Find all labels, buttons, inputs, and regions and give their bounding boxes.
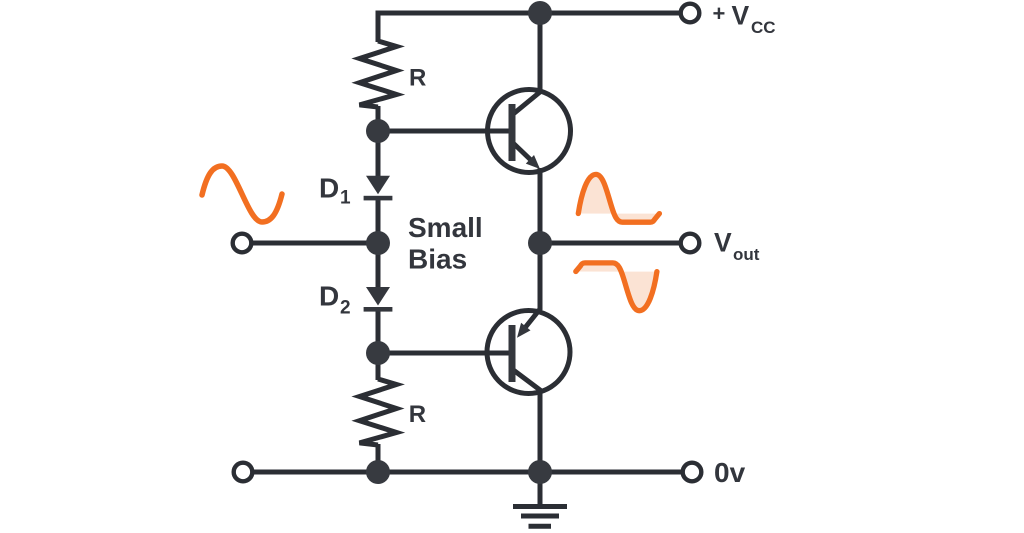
- svg-text:0v: 0v: [714, 457, 746, 488]
- svg-text:R: R: [409, 65, 426, 92]
- wire output node to Q2 emitter: [524, 243, 540, 329]
- wire diode D1 to node B: [376, 198, 381, 243]
- output negative half waveform fill: [576, 263, 657, 311]
- wire Q2 collector to bottom rail: [512, 369, 540, 472]
- svg-text:D: D: [319, 281, 339, 312]
- svg-text:V: V: [714, 227, 732, 257]
- junction node B (input): [366, 231, 390, 255]
- terminal 0v left: [234, 463, 253, 482]
- junction node C (Q2 base): [366, 341, 390, 365]
- wire bottom rail: [252, 470, 683, 475]
- wire node C to resistor R2: [376, 353, 381, 380]
- svg-text:R: R: [409, 401, 426, 428]
- resistor R1 zigzag: [360, 41, 397, 107]
- wire base Q2: [378, 351, 509, 356]
- svg-text:1: 1: [340, 188, 351, 209]
- wire Vcc to Q1 collector: [512, 13, 540, 115]
- wire diode D2 to node C: [376, 310, 381, 354]
- junction node top rail: [528, 1, 552, 25]
- diode D2: [364, 287, 393, 312]
- output positive half waveform: [578, 174, 659, 222]
- svg-text:+: +: [713, 1, 726, 26]
- ground: [513, 507, 567, 527]
- wire resistor R2 to bottom rail: [376, 444, 381, 472]
- wire output lead: [540, 241, 680, 246]
- terminal Vout: [681, 234, 700, 253]
- junction node output: [528, 231, 552, 255]
- input sine waveform: [202, 166, 282, 222]
- terminal input: [233, 234, 252, 253]
- junction node A (Q1 base): [366, 119, 390, 143]
- svg-text:V: V: [732, 1, 750, 31]
- svg-text:2: 2: [340, 298, 351, 319]
- transistor Q2: [487, 311, 570, 394]
- wire Q1 emitter to output node: [538, 168, 543, 243]
- ground stub: [538, 472, 543, 504]
- resistor R2 zigzag: [360, 379, 397, 445]
- svg-text:D: D: [319, 173, 339, 204]
- wire base Q1: [378, 129, 509, 134]
- output positive half waveform fill: [578, 174, 659, 222]
- output negative half waveform: [576, 263, 657, 311]
- junction node bottom rail left: [366, 460, 390, 484]
- svg-text:out: out: [733, 245, 760, 264]
- wire node B to diode D2: [376, 243, 381, 288]
- wire top rail: [376, 11, 682, 16]
- terminal 0v right: [683, 463, 702, 482]
- svg-text:Small: Small: [408, 212, 483, 243]
- wire resistor R1 to node A: [376, 106, 381, 131]
- junction node bottom rail right: [528, 460, 552, 484]
- terminal +Vcc: [681, 4, 700, 23]
- transistor Q1: [488, 90, 571, 173]
- wire input lead: [250, 241, 378, 246]
- wire left branch top segment: [376, 11, 381, 43]
- wire Q1 emitter diagonal: [512, 142, 534, 163]
- svg-text:CC: CC: [751, 18, 776, 37]
- wire node A to diode D1: [376, 131, 381, 176]
- diode D1: [364, 176, 393, 201]
- svg-text:Bias: Bias: [408, 244, 467, 275]
